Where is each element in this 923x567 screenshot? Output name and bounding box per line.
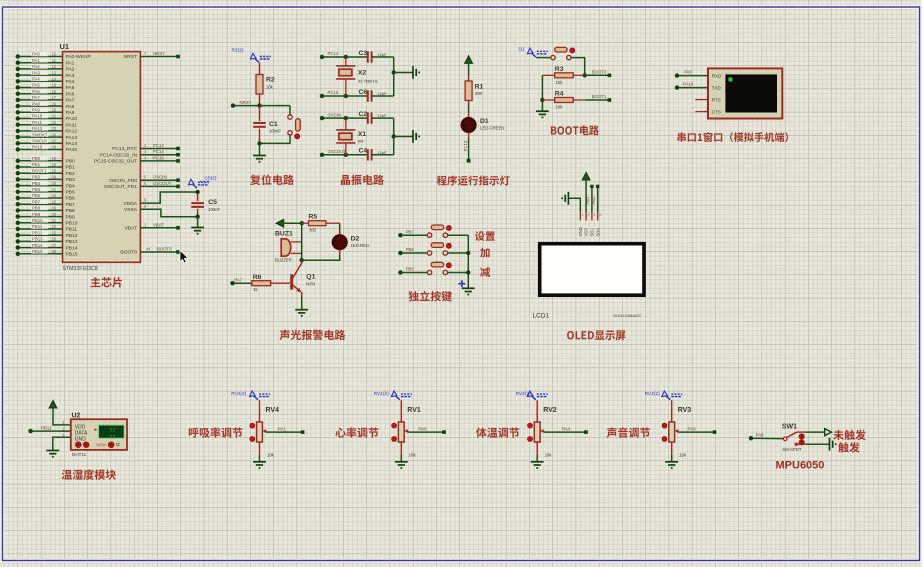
svg-text:PA6: PA6 xyxy=(32,89,40,94)
wire pin 2 node PC13 xyxy=(112,143,180,152)
wire xyxy=(400,400,402,422)
svg-text:PA5: PA5 xyxy=(32,83,40,88)
svg-text:OSCOUT: OSCOUT xyxy=(328,149,347,154)
svg-text:PC14: PC14 xyxy=(153,149,164,154)
label 触发 xyxy=(838,442,860,452)
svg-text:PB7: PB7 xyxy=(406,229,415,234)
svg-text:12pF: 12pF xyxy=(378,52,388,57)
svg-text:3: 3 xyxy=(593,213,595,217)
svg-text:2: 2 xyxy=(587,213,589,217)
wire xyxy=(671,442,673,455)
svg-text:4: 4 xyxy=(599,213,601,217)
wire pin 34 node SWDIO xyxy=(16,132,78,141)
svg-text:(1): (1) xyxy=(519,47,525,53)
label 串口1窗口（模拟手机端） xyxy=(677,132,788,142)
svg-text:14: 14 xyxy=(51,77,56,82)
resistor R2 10k xyxy=(256,63,275,106)
wire pin 38 node PA15 xyxy=(16,145,78,154)
svg-text:C5(2): C5(2) xyxy=(205,176,217,182)
svg-text:X1: X1 xyxy=(358,131,367,138)
ground xyxy=(531,462,544,468)
svg-text:11: 11 xyxy=(52,58,57,63)
wire xyxy=(671,400,673,422)
svg-text:30: 30 xyxy=(51,108,56,113)
wire node PB1 (SCL) xyxy=(585,185,593,212)
svg-text:D2: D2 xyxy=(351,236,360,243)
wire pin 44 node BOOT0 xyxy=(120,247,179,256)
svg-text:R3: R3 xyxy=(555,66,564,73)
wire node PC13 xyxy=(463,138,471,163)
svg-text:PB8: PB8 xyxy=(66,208,76,214)
wire xyxy=(289,106,291,116)
cursor hint R2(2) xyxy=(232,48,271,63)
wire xyxy=(267,431,303,433)
wire xyxy=(400,442,402,455)
label OLED显示屏 xyxy=(567,330,625,340)
svg-text:CTS: CTS xyxy=(712,110,721,115)
svg-text:PA7: PA7 xyxy=(234,277,242,282)
svg-text:PA0: PA0 xyxy=(688,426,697,431)
svg-text:PB9: PB9 xyxy=(66,214,76,220)
svg-text:12pF: 12pF xyxy=(378,150,388,155)
svg-text:PA11: PA11 xyxy=(32,120,42,125)
svg-text:BOOT1: BOOT1 xyxy=(32,168,47,173)
svg-text:PA4: PA4 xyxy=(66,79,75,85)
svg-text:PB13: PB13 xyxy=(66,239,78,245)
wire pin 25 node PB12 xyxy=(16,230,78,239)
svg-text:PA15: PA15 xyxy=(32,145,43,150)
svg-text:42: 42 xyxy=(51,193,56,198)
wire xyxy=(392,57,413,96)
svg-text:26: 26 xyxy=(51,237,56,242)
svg-text:PB4: PB4 xyxy=(66,183,76,189)
svg-text:BUZ1: BUZ1 xyxy=(275,231,293,238)
svg-text:VBAT: VBAT xyxy=(125,226,137,232)
capacitor C4 12pF xyxy=(359,148,394,161)
svg-text:28: 28 xyxy=(51,249,56,254)
svg-text:PB12: PB12 xyxy=(66,233,78,239)
capacitor C2 12pF xyxy=(359,111,394,124)
svg-text:PB11: PB11 xyxy=(66,227,78,233)
wire pin 9 VDDA to C5 xyxy=(123,192,197,207)
svg-text:PB12: PB12 xyxy=(41,425,52,430)
pin CTS stub xyxy=(695,111,708,113)
label 声音调节 xyxy=(607,427,650,438)
wire pin 18 node PB0 xyxy=(16,156,75,165)
svg-text:12pF: 12pF xyxy=(378,91,388,96)
svg-text:PA9: PA9 xyxy=(32,108,40,113)
svg-text:PC13_RTC: PC13_RTC xyxy=(112,146,137,152)
wire node BOOT0 xyxy=(585,69,611,77)
svg-text:R2(2): R2(2) xyxy=(232,48,244,54)
svg-text:PA11: PA11 xyxy=(66,122,78,128)
svg-text:PB10: PB10 xyxy=(66,221,78,227)
svg-text:OSCIN: OSCIN xyxy=(328,112,342,117)
wire node PB0 (SDA) xyxy=(591,185,599,212)
wire xyxy=(536,442,538,455)
svg-text:PB10: PB10 xyxy=(32,218,43,223)
svg-text:PB0: PB0 xyxy=(66,159,76,165)
wire pin 4 node PC15 xyxy=(94,155,180,164)
push button (reset) xyxy=(288,115,300,139)
svg-text:C2: C2 xyxy=(359,111,368,118)
svg-text:NPN: NPN xyxy=(306,281,315,286)
cursor hint RV4(2) xyxy=(231,391,270,400)
svg-text:LED-RED: LED-RED xyxy=(351,243,369,248)
svg-text:PB7: PB7 xyxy=(66,202,76,208)
svg-text:Q1: Q1 xyxy=(306,274,315,281)
wire xyxy=(544,431,586,433)
push button (boot) xyxy=(536,47,575,59)
op-amp U1 (MCU STM32F103C8) body xyxy=(60,42,141,272)
svg-text:38: 38 xyxy=(51,145,56,150)
wire pin 27 node PB14 xyxy=(16,243,78,252)
svg-text:27: 27 xyxy=(51,243,56,248)
label 加 xyxy=(480,248,489,258)
svg-text:OSCOUT: OSCOUT xyxy=(153,181,172,186)
label 呼吸率调节 xyxy=(189,427,243,437)
wire pin 31 node PA10 xyxy=(16,114,78,123)
wire xyxy=(300,223,304,262)
svg-text:PB7: PB7 xyxy=(32,199,41,204)
wire node BOOT1 xyxy=(585,94,611,102)
svg-text:U2: U2 xyxy=(72,413,81,420)
potentiometer RV1 10k xyxy=(392,400,446,468)
svg-text:OSCIN: OSCIN xyxy=(153,175,167,180)
resistor R5 300 xyxy=(302,214,340,233)
wire xyxy=(571,58,587,78)
virtual terminal (serial window) xyxy=(708,68,782,118)
svg-text:PB0: PB0 xyxy=(591,196,596,205)
svg-text:RV1: RV1 xyxy=(407,407,421,414)
label 温湿度模块 xyxy=(62,469,116,479)
wire pin 43 node PB7 xyxy=(16,199,75,208)
label 程序运行指示灯 xyxy=(437,175,510,185)
svg-text:PC15-OSC32_OUT: PC15-OSC32_OUT xyxy=(94,159,137,165)
svg-text:BOOT0: BOOT0 xyxy=(157,247,172,252)
wire pin 7 node NRST xyxy=(124,51,180,60)
ground xyxy=(462,288,475,294)
resistor R3 10k xyxy=(542,66,584,85)
label 复位电路 xyxy=(250,174,294,184)
label 未触发 xyxy=(833,430,866,440)
svg-text:PB5: PB5 xyxy=(32,187,41,192)
wire pin 32 node PA11 xyxy=(16,120,77,128)
cursor hint C5(2) xyxy=(188,176,216,189)
ground xyxy=(536,100,549,117)
svg-text:PA6: PA6 xyxy=(66,91,75,97)
wire pin 46 node PB9 xyxy=(16,212,75,221)
resistor R4 10k xyxy=(542,91,584,110)
svg-text:PB15: PB15 xyxy=(32,249,43,254)
svg-text:13: 13 xyxy=(51,70,56,75)
wire pin 10 node PA0 xyxy=(16,52,91,61)
svg-text:39: 39 xyxy=(51,175,56,180)
label 主芯片 xyxy=(91,277,122,287)
push button node PB8 xyxy=(398,243,468,255)
power terminal xyxy=(49,401,70,425)
wire pin 11 node PA1 xyxy=(16,58,75,67)
svg-text:PB3: PB3 xyxy=(32,175,41,180)
label 晶振电路 xyxy=(341,175,384,185)
wire pin 5 node OSCIN xyxy=(109,175,180,184)
svg-text:12pF: 12pF xyxy=(378,113,388,118)
svg-text:NRST: NRST xyxy=(153,51,165,56)
resistor R1 300 xyxy=(465,75,483,101)
svg-text:GND: GND xyxy=(578,227,583,236)
wire xyxy=(392,118,413,155)
svg-text:RV3: RV3 xyxy=(678,407,692,414)
wire pin 39 node PB3 xyxy=(16,175,75,184)
svg-text:PA5: PA5 xyxy=(419,426,428,431)
svg-text:25: 25 xyxy=(51,230,56,235)
svg-text:RV2: RV2 xyxy=(543,407,557,414)
svg-text:BOOT0: BOOT0 xyxy=(120,250,137,256)
svg-text:PB1: PB1 xyxy=(66,165,76,171)
wire pin 37 node SWCLK xyxy=(16,139,78,148)
sensor U2 DHT11 xyxy=(62,413,127,450)
label 减 xyxy=(480,267,490,277)
svg-text:44: 44 xyxy=(146,247,151,252)
svg-text:PA10: PA10 xyxy=(66,116,78,122)
wire pin 3 node PC14 xyxy=(99,149,179,158)
svg-text:32.768KHz: 32.768KHz xyxy=(358,79,378,84)
svg-text:34: 34 xyxy=(51,132,56,137)
svg-text:PC14: PC14 xyxy=(328,51,339,56)
svg-text:LCD1: LCD1 xyxy=(533,313,550,320)
svg-text:DHT11: DHT11 xyxy=(72,452,87,457)
svg-text:46: 46 xyxy=(51,212,56,217)
wire xyxy=(536,400,538,422)
wire pin 26 node PB13 xyxy=(16,237,78,246)
buzzer BUZ1 xyxy=(275,231,302,263)
svg-text:SW1: SW1 xyxy=(782,424,797,431)
svg-text:R4: R4 xyxy=(555,91,564,98)
svg-text:PA3: PA3 xyxy=(32,70,40,75)
svg-text:PA8: PA8 xyxy=(32,101,40,106)
origin marker xyxy=(458,280,465,287)
svg-text:BUZZER: BUZZER xyxy=(275,258,292,263)
mouse cursor xyxy=(180,251,188,263)
svg-text:100nF: 100nF xyxy=(208,207,220,212)
label 声光报警电路 xyxy=(280,330,346,340)
svg-text:32: 32 xyxy=(51,120,56,125)
transistor Q1 NPN xyxy=(290,260,315,295)
svg-text:PA2: PA2 xyxy=(66,67,75,73)
crystal X1 8M xyxy=(336,118,366,155)
svg-text:300: 300 xyxy=(309,228,317,233)
svg-text:17: 17 xyxy=(51,95,56,100)
svg-text:PB8: PB8 xyxy=(406,247,415,252)
capacitor C3 12pF xyxy=(359,50,394,63)
svg-text:33: 33 xyxy=(51,126,56,131)
svg-text:PA5: PA5 xyxy=(66,85,75,91)
svg-text:C1: C1 xyxy=(269,121,278,128)
wire pin 1 node VBAT xyxy=(125,222,180,231)
potentiometer RV4 10k xyxy=(250,400,305,468)
svg-text:SDA: SDA xyxy=(595,228,600,237)
wire pin 8 VSSA to C5 xyxy=(124,204,198,217)
svg-text:PB15: PB15 xyxy=(66,252,78,258)
ground (side) for OLED GND xyxy=(562,192,580,212)
ground xyxy=(253,462,266,468)
svg-text:PA0-WKUP: PA0-WKUP xyxy=(66,54,91,60)
svg-text:PA1: PA1 xyxy=(32,58,40,63)
wire pin 42 node PB6 xyxy=(16,193,75,202)
wire node PA10 xyxy=(675,82,708,90)
svg-text:R6: R6 xyxy=(253,274,262,281)
potentiometer RV3 10k xyxy=(662,400,716,468)
svg-text:GND: GND xyxy=(75,437,87,443)
svg-text:40: 40 xyxy=(51,181,56,186)
wire pin 15 node PA5 xyxy=(16,83,75,92)
svg-text:RXD: RXD xyxy=(712,74,722,79)
wire node PB12 xyxy=(28,425,70,433)
svg-text:PB1: PB1 xyxy=(585,196,590,205)
svg-text:VBAT: VBAT xyxy=(153,222,164,227)
svg-text:PA10: PA10 xyxy=(683,82,694,87)
label BOOT电路 xyxy=(551,125,599,135)
push button node PB7 xyxy=(398,225,468,237)
switch SW1 SW-SPDT node PA8 xyxy=(749,424,806,453)
svg-text:20: 20 xyxy=(51,168,56,173)
svg-text:37: 37 xyxy=(51,139,56,144)
svg-text:10: 10 xyxy=(51,52,56,57)
svg-text:NRST: NRST xyxy=(124,54,137,60)
svg-text:PB2: PB2 xyxy=(66,171,76,177)
wire pin 29 node PA8 xyxy=(16,101,75,110)
svg-text:R2: R2 xyxy=(266,77,275,84)
svg-text:43: 43 xyxy=(51,199,56,204)
svg-text:OSCIN_PD0: OSCIN_PD0 xyxy=(109,178,137,184)
svg-text:PB13: PB13 xyxy=(32,237,43,242)
svg-text:PA3: PA3 xyxy=(66,73,75,79)
svg-text:PB12: PB12 xyxy=(32,230,43,235)
wire pin 28 node PB15 xyxy=(16,249,78,258)
OLED pin stubs 1-4 xyxy=(578,212,601,237)
capacitor C5 100nF xyxy=(191,190,220,219)
svg-text:PC13: PC13 xyxy=(153,143,164,148)
svg-text:PA1: PA1 xyxy=(278,426,287,431)
LED D1 LED-GREEN xyxy=(461,117,504,138)
svg-text:PB6: PB6 xyxy=(32,193,41,198)
svg-text:PB6: PB6 xyxy=(66,196,76,202)
svg-text:PA7: PA7 xyxy=(66,98,75,104)
svg-text:VDDA: VDDA xyxy=(123,201,137,207)
wire xyxy=(679,431,715,433)
svg-text:10k: 10k xyxy=(556,105,564,110)
svg-text:PC15: PC15 xyxy=(153,155,164,160)
svg-text:VCC: VCC xyxy=(584,228,589,237)
svg-text:MPU6050: MPU6050 xyxy=(776,460,825,472)
label 体温调节 xyxy=(476,427,519,437)
svg-text:21: 21 xyxy=(51,218,56,223)
wire pin 17 node PA7 xyxy=(16,95,75,104)
svg-text:PA4: PA4 xyxy=(32,77,40,82)
power terminal xyxy=(465,56,472,74)
svg-text:X2: X2 xyxy=(358,70,367,77)
ground xyxy=(295,296,308,316)
wire xyxy=(540,75,544,102)
svg-text:300: 300 xyxy=(475,91,483,96)
svg-text:OLED12864I2C: OLED12864I2C xyxy=(613,313,641,318)
node NRST wire xyxy=(231,100,290,108)
svg-text:OSCOUT_PD1: OSCOUT_PD1 xyxy=(104,184,137,190)
ground xyxy=(395,462,408,468)
svg-text:PB3: PB3 xyxy=(66,177,76,183)
svg-text:22: 22 xyxy=(51,224,56,229)
svg-text:BOOT0: BOOT0 xyxy=(592,69,607,74)
capacitor C1 100nF xyxy=(253,106,281,144)
svg-text:U1: U1 xyxy=(60,42,70,51)
svg-text:C5: C5 xyxy=(208,199,217,206)
svg-text:8M: 8M xyxy=(358,138,364,143)
svg-text:D1: D1 xyxy=(480,118,489,125)
svg-text:RV4: RV4 xyxy=(266,407,280,414)
display LCD1 OLED12864I2C xyxy=(533,244,645,320)
svg-text:PA14: PA14 xyxy=(66,141,78,147)
wire node OSCIN xyxy=(320,112,368,120)
svg-text:C6: C6 xyxy=(359,89,368,96)
wire node PA9 xyxy=(675,70,708,78)
svg-text:PC14-OSC32_IN: PC14-OSC32_IN xyxy=(99,152,137,158)
label 设置 xyxy=(475,231,495,241)
svg-text:PA1: PA1 xyxy=(66,60,75,66)
svg-text:DATA: DATA xyxy=(75,431,88,437)
svg-text:100nF: 100nF xyxy=(269,129,281,134)
svg-text:PA9: PA9 xyxy=(684,70,692,75)
push button node PB9 xyxy=(398,262,468,274)
ground xyxy=(46,437,70,456)
svg-text:PB4: PB4 xyxy=(32,181,41,186)
wire xyxy=(257,135,290,146)
svg-text:PA12: PA12 xyxy=(66,129,78,135)
svg-text:10k: 10k xyxy=(267,453,275,458)
resistor R6 1k node PA7 xyxy=(230,274,289,292)
svg-text:12: 12 xyxy=(51,64,56,69)
svg-text:PB11: PB11 xyxy=(32,224,43,229)
svg-text:PA0: PA0 xyxy=(32,52,40,57)
svg-text:45: 45 xyxy=(51,206,56,211)
svg-text:VSSA: VSSA xyxy=(124,207,138,213)
svg-text:15: 15 xyxy=(51,83,56,88)
svg-text:C3: C3 xyxy=(359,50,368,57)
ground (side) xyxy=(413,66,419,79)
wire xyxy=(259,400,261,422)
pin RTS stub xyxy=(695,99,708,101)
svg-text:10k: 10k xyxy=(266,85,274,90)
svg-text:PA7: PA7 xyxy=(32,95,40,100)
wire pin 41 node PB5 xyxy=(16,187,75,196)
wire xyxy=(468,101,470,105)
svg-text:31: 31 xyxy=(51,114,56,119)
wire to power arrow 未触发 xyxy=(806,429,832,436)
wire node PC15 xyxy=(320,90,368,98)
svg-text:PC13: PC13 xyxy=(463,140,468,151)
svg-text:SWDIO: SWDIO xyxy=(32,132,47,137)
svg-text:PA13: PA13 xyxy=(66,135,78,141)
svg-text:19: 19 xyxy=(51,162,56,167)
svg-text:PA15: PA15 xyxy=(66,147,78,153)
wire pin 40 node PB4 xyxy=(16,181,75,190)
wire pin 22 node PB11 xyxy=(16,224,78,233)
wire pin 45 node PB8 xyxy=(16,206,75,215)
svg-text:18: 18 xyxy=(51,156,56,161)
svg-text:10k: 10k xyxy=(679,453,687,458)
cursor hint RV3(2) xyxy=(645,391,683,400)
wire to ground 触发 xyxy=(806,438,836,451)
wire pin 21 node PB10 xyxy=(16,218,78,227)
